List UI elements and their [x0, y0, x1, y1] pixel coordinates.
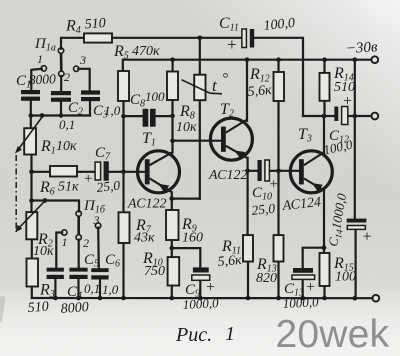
wire T2 emitter column [247, 158, 249, 171]
switch П1а contacts [41, 48, 79, 77]
svg-text:0,1: 0,1 [84, 281, 100, 296]
svg-text:2: 2 [83, 236, 89, 250]
wire T1 collector column [171, 100, 173, 153]
resistor R8 10к [167, 72, 178, 101]
wire R14 top lead [323, 60, 325, 73]
transistor T1 АС122 [138, 151, 180, 193]
wire R6 left lead [32, 171, 51, 173]
svg-text:1000,0: 1000,0 [282, 294, 319, 311]
node output R14/T3 [322, 114, 327, 119]
svg-text:+: + [205, 279, 216, 296]
svg-text:8000: 8000 [60, 300, 89, 317]
wire C8 right lead [156, 115, 173, 117]
switch П1б contacts [62, 211, 101, 240]
wire C9 bottom lead [199, 280, 201, 298]
wire C1 bottom to R1 top [30, 101, 32, 129]
capacitor C1 8000 [21, 90, 40, 94]
node bus C2 [59, 113, 64, 118]
svg-text:43к: 43к [134, 231, 155, 246]
wire -30v rail [123, 60, 371, 71]
wire R11 bottom lead [247, 262, 249, 299]
node R12/R13 [276, 168, 281, 173]
node gnd C9 [198, 296, 203, 301]
svg-text:+: + [342, 93, 353, 110]
wire C14 bottom lead [355, 229, 357, 298]
wire R7 top lead [122, 172, 124, 213]
wire R5 bottom to base node [122, 101, 124, 172]
node gnd C4 [53, 296, 58, 301]
resistor R15 100 [320, 253, 330, 286]
resistor R5 470к [118, 71, 129, 101]
terminal -30v [371, 56, 378, 63]
svg-text:51к: 51к [58, 180, 79, 195]
wire C5 bottom lead [77, 279, 79, 298]
svg-text:3: 3 [79, 53, 86, 67]
svg-text:АС122: АС122 [208, 168, 248, 183]
svg-text:+: + [83, 171, 93, 187]
resistor R4 510 [84, 33, 112, 42]
wire R12 bottom lead [277, 101, 279, 171]
node gnd C14 [352, 296, 357, 301]
svg-text:820: 820 [256, 271, 277, 286]
wire C11 to output corner [254, 38, 303, 116]
svg-text:750: 750 [144, 264, 165, 279]
resistor R14 510 [320, 73, 330, 101]
svg-text:+: + [362, 229, 373, 246]
resistor R9 160 [166, 210, 179, 240]
resistor R10 750 [168, 257, 180, 285]
variable resistor R2 10к [26, 212, 37, 239]
wire П1б contact 2 lead [78, 240, 80, 268]
node gnd R13 [276, 296, 281, 301]
node output C14 [352, 114, 357, 119]
wire C4 bottom lead [54, 279, 56, 298]
wire C12 to output terminal [348, 115, 371, 117]
capacitor C8 100 [143, 109, 149, 127]
svg-text:0,1: 0,1 [59, 117, 75, 132]
node gnd R11 [246, 296, 251, 301]
node bus R1 arrow [40, 113, 45, 118]
wire R15 bottom lead [323, 286, 325, 298]
wire R6 to C7 [77, 171, 95, 173]
wire П1а contact 1 lead [31, 69, 42, 90]
node R9/R10/C9 [169, 246, 174, 251]
svg-text:+: + [226, 35, 237, 54]
wire C2 bottom lead [60, 102, 62, 116]
wire thermistor bottom column [199, 100, 201, 198]
wire T1 emitter column [171, 192, 173, 210]
capacitor C7 25,0 electrolytic [95, 162, 101, 180]
gang coupling dash-dot line R1-R2 [15, 155, 17, 232]
wire T3 emitter column [323, 190, 325, 247]
svg-text:100: 100 [335, 270, 356, 285]
wire R1 bottom to R2 top [30, 155, 32, 213]
resistor R13 820 [274, 235, 284, 261]
node rail T2 collector [245, 57, 250, 62]
wire R9 bottom to R10 top [171, 240, 173, 257]
wire capacitor bus [31, 114, 90, 116]
node gnd C5 [76, 296, 81, 301]
node bus C1 [28, 113, 33, 118]
svg-text:1: 1 [37, 52, 43, 66]
wire R10 bottom lead [171, 286, 173, 299]
svg-text:1,0: 1,0 [104, 103, 121, 118]
svg-text:АС122: АС122 [127, 197, 167, 212]
svg-text:Рис.: Рис. [175, 324, 212, 346]
resistor R6 51к [50, 166, 77, 177]
resistor R11 5,6к [243, 235, 253, 261]
svg-text:1: 1 [62, 235, 68, 249]
wire П1а contact 2 lead [60, 76, 62, 91]
svg-text:−30в: −30в [345, 39, 378, 57]
node rail R8 [170, 57, 175, 62]
wire R13 bottom lead [277, 262, 279, 299]
wire R13 column [277, 171, 279, 235]
terminal ground [372, 295, 379, 302]
R1 wiper arrow [18, 117, 43, 151]
wire T3 collector column [323, 116, 325, 154]
wire C9 branch [172, 248, 201, 267]
wire C3 bottom lead [89, 101, 91, 116]
node C8 right [170, 114, 175, 119]
wire T1 base line [109, 171, 145, 173]
node gnd R15 [322, 296, 327, 301]
svg-text:°: ° [222, 71, 228, 87]
node C8 left [121, 114, 126, 119]
wire output line to C12 [303, 115, 334, 117]
wire R2 bottom to R3 top [31, 239, 33, 258]
wire П1б contact 1 lead [56, 233, 62, 268]
R2 wiper arrow [18, 201, 45, 229]
node T1 emitter [169, 196, 174, 201]
wire П1б contact 3 lead [97, 228, 100, 269]
svg-text:10к: 10к [176, 120, 197, 135]
svg-text:+: + [269, 177, 279, 193]
capacitor C4 8000 [47, 268, 64, 272]
wire C8 left lead [124, 115, 143, 117]
wire R3 bottom to ground rail [31, 287, 33, 299]
capacitor C6 1,0 [91, 268, 108, 272]
node gnd C13 [300, 296, 305, 301]
wire T2 collector column [246, 60, 248, 121]
resistor R7 43к [119, 212, 130, 243]
wire C6 bottom lead [99, 280, 101, 299]
svg-text:2: 2 [64, 70, 70, 84]
wire C10 to T3 base [269, 170, 298, 172]
node gnd R10 [169, 296, 174, 301]
node R4/C11/thermistor [197, 35, 202, 40]
wire R12 top lead [277, 60, 279, 72]
wire T2 base line [173, 140, 222, 142]
capacitor C14 1000,0 electrolytic [347, 219, 367, 223]
node T1 base/R7 [121, 169, 126, 174]
node rail R14 [322, 57, 327, 62]
svg-text:25,0: 25,0 [96, 178, 121, 195]
svg-text:100: 100 [145, 89, 165, 104]
wire T2 emitter to C10 [248, 170, 258, 172]
terminal output [371, 113, 378, 120]
wire ground rail [32, 297, 372, 299]
wire R11 column [247, 171, 249, 235]
wire R14 bottom lead [323, 101, 325, 116]
variable resistor R1 10к [24, 128, 36, 154]
wire R4 to C11 [112, 37, 242, 39]
wire C13 bottom lead [302, 279, 304, 298]
node rail C14 [352, 57, 357, 62]
svg-text:10к: 10к [56, 139, 77, 154]
wire R7 bottom lead [122, 243, 124, 298]
capacitor C5 0,1 [69, 268, 87, 272]
transistor T2 АС122 [210, 118, 252, 160]
svg-text:1: 1 [225, 323, 235, 345]
svg-text:3: 3 [93, 213, 100, 227]
capacitor C10 25,0 electrolytic [258, 160, 262, 181]
wire П1а contact 3 lead [78, 69, 89, 91]
node R6 left [29, 169, 34, 174]
svg-text:10к: 10к [33, 244, 54, 259]
node R2 arrow [43, 198, 48, 203]
capacitor C2 0,1 [51, 91, 71, 95]
wire thermistor top column [199, 38, 201, 75]
node rail R12 [276, 57, 281, 62]
svg-text:510: 510 [27, 300, 49, 316]
wire to П1б wiper [32, 201, 80, 212]
node П1б wire left [29, 198, 34, 203]
capacitor C12 100,0 electrolytic [334, 107, 338, 122]
capacitor C3 1,0 [81, 90, 100, 94]
svg-text:5,6к: 5,6к [217, 253, 243, 270]
node T2 base [170, 138, 175, 143]
wire T1 emitter to thermistor node [172, 198, 200, 200]
wire R8 top lead [172, 60, 174, 72]
svg-text:1000,0: 1000,0 [182, 295, 219, 312]
wire C13 branch [303, 248, 324, 268]
node T2 emitter/R11 [245, 168, 250, 173]
wire П1а top contact to R4 [61, 38, 84, 49]
svg-text:8000: 8000 [28, 71, 56, 87]
svg-text:5,6к: 5,6к [247, 83, 273, 100]
transistor T3 АС124 [290, 151, 332, 193]
svg-text:20wek: 20wek [276, 313, 390, 356]
capacitor C13 1000,0 electrolytic [293, 268, 313, 273]
resistor R3 510 [27, 259, 39, 287]
node gnd R7 [121, 296, 126, 301]
svg-text:510: 510 [84, 16, 106, 32]
svg-text:160: 160 [182, 231, 203, 246]
svg-text:25,0: 25,0 [251, 201, 276, 218]
svg-text:470к: 470к [132, 44, 160, 59]
capacitor C9 1000,0 electrolytic [193, 267, 209, 272]
thermistor diagonal stroke [182, 80, 223, 94]
wire C14 top column [354, 60, 356, 219]
svg-text:1,0: 1,0 [102, 282, 119, 297]
wire R15 top lead [323, 248, 325, 253]
node T3 emitter/R15/C13 [322, 245, 327, 250]
capacitor C11 100,0 electrolytic [242, 29, 247, 48]
thermistor t [194, 75, 205, 101]
node gnd C6 [98, 296, 103, 301]
resistor R12 5,6к [274, 72, 285, 101]
